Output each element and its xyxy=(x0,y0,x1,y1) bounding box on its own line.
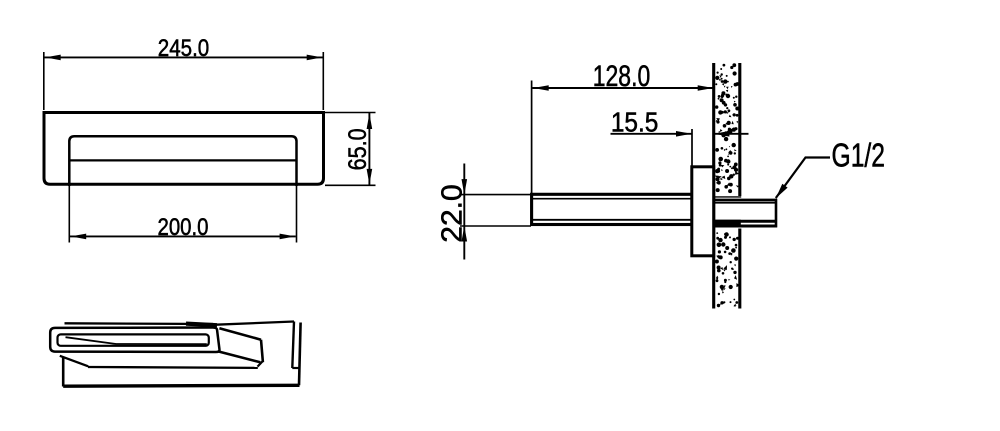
side view mounting flange xyxy=(692,167,714,256)
front view outer body xyxy=(44,113,324,185)
leader G1/2 xyxy=(776,138,885,199)
side view wall right face xyxy=(738,63,741,309)
isometric view: spout front face xyxy=(50,328,219,353)
side view wall left face xyxy=(712,63,715,309)
dimension 200.0 xyxy=(69,186,296,243)
svg-text:22.0: 22.0 xyxy=(437,184,469,243)
front view slot opening xyxy=(69,136,296,186)
isometric view: back plate right edge xyxy=(292,322,300,386)
isometric view: back plate top edge xyxy=(65,322,295,326)
isometric view: spout bottom face xyxy=(60,356,263,368)
svg-text:15.5: 15.5 xyxy=(611,107,659,138)
side view spout tube xyxy=(532,194,692,224)
dimension 128.0 xyxy=(532,60,714,193)
front view slot lip line xyxy=(69,159,296,161)
svg-text:245.0: 245.0 xyxy=(158,35,210,62)
isometric view: spout right end cap xyxy=(218,328,263,362)
dimension 22.0 xyxy=(437,164,531,260)
threaded nipple G1/2 xyxy=(714,199,778,228)
dimension 65.0 xyxy=(325,113,376,186)
svg-text:65.0: 65.0 xyxy=(344,128,372,170)
side view wall hatch speckle upper xyxy=(715,63,740,193)
dimension 245.0 xyxy=(44,35,324,110)
isometric view: spout slot xyxy=(58,334,209,345)
side view tube through-wall line xyxy=(714,196,742,198)
dimension 15.5 xyxy=(611,107,749,166)
svg-text:G1/2: G1/2 xyxy=(832,138,886,175)
svg-text:128.0: 128.0 xyxy=(593,60,651,93)
svg-text:200.0: 200.0 xyxy=(158,214,209,241)
side view wall hatch speckle lower xyxy=(715,232,741,307)
isometric view: back plate bottom and left edges xyxy=(63,357,299,387)
